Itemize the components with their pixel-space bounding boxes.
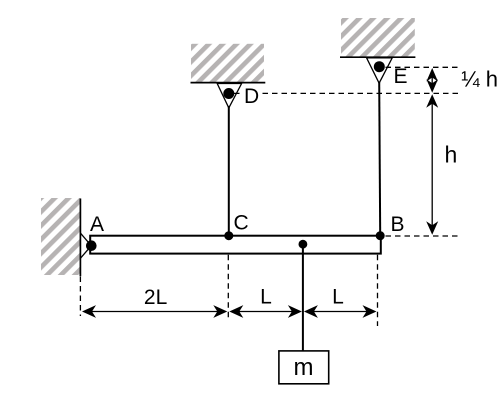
- svg-text:D: D: [244, 85, 259, 108]
- hanger triangle D: [217, 84, 241, 108]
- wall face line: [79, 199, 81, 277]
- dashed line at E level: [386, 66, 461, 68]
- dimension quarter-h arrow: [431, 70, 433, 91]
- dashed vertical below C: [227, 255, 229, 318]
- node C dot: [224, 231, 233, 240]
- label D: [243, 86, 260, 104]
- ceiling hatch above D: [191, 44, 264, 82]
- dimension h arrow: [431, 96, 433, 232]
- svg-text:m: m: [294, 354, 314, 381]
- pin support bracket at A: [81, 233, 92, 258]
- pin dot A: [86, 240, 97, 251]
- mass box: [279, 351, 329, 384]
- string attachment dot: [299, 240, 308, 249]
- dashed vertical below B: [377, 255, 379, 326]
- dimension L line (C to string): [233, 311, 299, 313]
- dashed line at D level: [234, 92, 460, 94]
- ceiling line above E: [340, 56, 415, 58]
- node B dot: [376, 231, 385, 240]
- dashed vertical below A: [79, 277, 81, 317]
- dimension L line (string to B): [308, 311, 373, 313]
- svg-text:C: C: [234, 212, 249, 235]
- svg-text:¼ h: ¼ h: [461, 67, 498, 92]
- wall hatch (left fixed support): [41, 198, 80, 275]
- ceiling line above D: [191, 82, 266, 84]
- ceiling hatch above E: [341, 18, 415, 57]
- svg-text:2L: 2L: [144, 286, 167, 309]
- svg-text:L: L: [260, 286, 272, 309]
- svg-text:B: B: [391, 213, 405, 236]
- wire D-C: [228, 106, 230, 236]
- svg-text:A: A: [90, 213, 104, 236]
- string to mass: [302, 244, 304, 351]
- label E: [393, 69, 407, 84]
- dimension 2L line: [86, 311, 224, 313]
- dashed line at B level: [386, 235, 459, 237]
- pin dot D: [223, 88, 234, 99]
- svg-text:E: E: [394, 65, 408, 88]
- beam AB: [90, 236, 381, 254]
- svg-text:h: h: [445, 142, 458, 168]
- svg-text:L: L: [332, 286, 344, 309]
- wire E-B: [379, 82, 380, 236]
- hanger triangle E: [367, 58, 393, 83]
- pin dot E: [374, 61, 385, 72]
